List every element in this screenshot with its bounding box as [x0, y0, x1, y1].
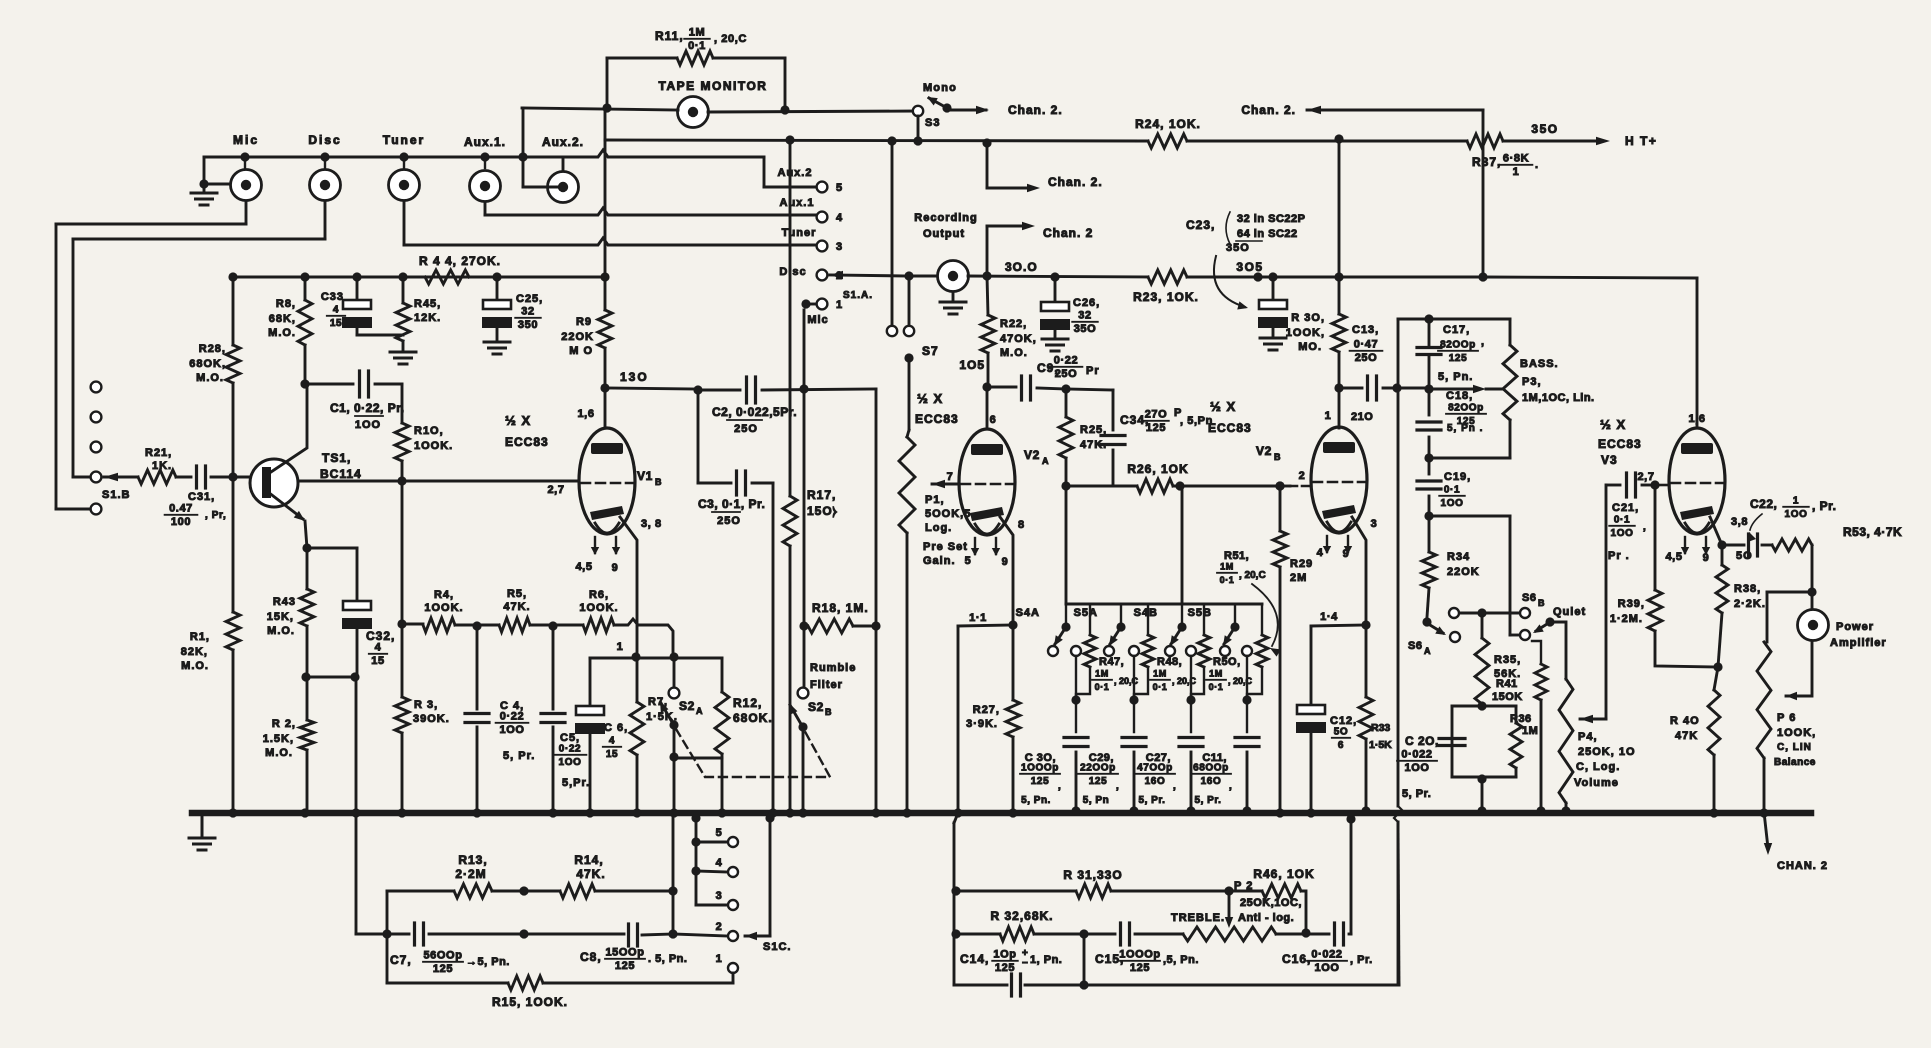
svg-text:TAPE MONITOR: TAPE MONITOR — [659, 79, 768, 93]
svg-text:1M: 1M — [1153, 669, 1167, 679]
svg-text:R13,: R13, — [458, 853, 487, 867]
svg-text:1OO: 1OO — [499, 724, 524, 736]
svg-text:V2: V2 — [1256, 444, 1272, 458]
svg-text:S5A: S5A — [1074, 607, 1098, 619]
svg-text:Log.: Log. — [925, 522, 952, 534]
svg-text:Recording: Recording — [914, 212, 977, 224]
svg-text:C13,: C13, — [1352, 324, 1379, 336]
svg-text:R37,: R37, — [1472, 155, 1501, 169]
svg-text:4,5: 4,5 — [575, 561, 592, 573]
svg-text:, 20,C: , 20,C — [1239, 570, 1266, 581]
svg-text:9: 9 — [1002, 556, 1009, 568]
svg-text:Aux.2: Aux.2 — [778, 167, 813, 179]
svg-text:1,6: 1,6 — [1688, 413, 1705, 425]
svg-text:12K.: 12K. — [414, 312, 441, 324]
svg-text:1: 1 — [836, 299, 843, 311]
svg-text:125: 125 — [1089, 776, 1108, 787]
svg-text:Tuner: Tuner — [782, 227, 817, 239]
svg-text:0·1: 0·1 — [1220, 575, 1235, 585]
svg-text:S1C.: S1C. — [763, 941, 791, 953]
svg-text:47K.: 47K. — [503, 601, 530, 613]
svg-text:R51,: R51, — [1224, 550, 1249, 562]
svg-text:R12,: R12, — [733, 696, 762, 710]
svg-text:1: 1 — [1325, 410, 1332, 422]
svg-text:TREBLE.: TREBLE. — [1171, 912, 1225, 924]
svg-text:2: 2 — [1299, 470, 1306, 482]
svg-text:, Pr,: , Pr, — [205, 510, 226, 521]
svg-text:R36: R36 — [1510, 713, 1532, 725]
svg-text:. 5, Pn.: . 5, Pn. — [648, 953, 687, 965]
svg-text:R22,: R22, — [1000, 318, 1027, 330]
svg-text:R18, 1M.: R18, 1M. — [812, 601, 869, 615]
svg-text:R1O,: R1O, — [414, 425, 444, 437]
svg-text:25O: 25O — [1055, 368, 1078, 380]
svg-text:25OK, 1O: 25OK, 1O — [1578, 746, 1636, 758]
svg-text:6: 6 — [990, 414, 997, 426]
svg-text:1OO: 1OO — [355, 419, 381, 431]
svg-text:5, Pn .: 5, Pn . — [1447, 423, 1483, 434]
svg-text:Balance: Balance — [1774, 757, 1816, 768]
svg-text:Chan. 2: Chan. 2 — [1043, 226, 1093, 240]
svg-text:C33: C33 — [321, 291, 344, 303]
svg-text:M.O.: M.O. — [265, 747, 293, 759]
svg-text:B: B — [1274, 452, 1281, 462]
svg-text:C21,: C21, — [1612, 502, 1639, 514]
svg-text:1M: 1M — [1095, 669, 1109, 679]
svg-text:→5, Pn.: →5, Pn. — [466, 956, 510, 968]
svg-text:S1.A.: S1.A. — [843, 290, 873, 301]
svg-text:R5,: R5, — [507, 588, 527, 600]
svg-text:1OO: 1OO — [1314, 962, 1339, 974]
svg-text:,: , — [1481, 336, 1485, 348]
svg-text:3: 3 — [1371, 518, 1378, 530]
svg-text:R21,: R21, — [145, 447, 172, 459]
svg-text:R 4O: R 4O — [1670, 715, 1700, 727]
svg-text:M.O.: M.O. — [1000, 347, 1028, 359]
svg-text:1K.: 1K. — [152, 460, 172, 472]
svg-text:Filter: Filter — [810, 679, 843, 691]
svg-text:3: 3 — [716, 890, 723, 902]
svg-text:2·2M: 2·2M — [455, 867, 486, 881]
svg-text:47K.: 47K. — [576, 867, 605, 881]
svg-text:Chan. 2.: Chan. 2. — [1241, 103, 1296, 117]
svg-text:9: 9 — [1343, 548, 1350, 560]
svg-text:S1.B: S1.B — [102, 489, 130, 501]
svg-text:Chan. 2.: Chan. 2. — [1048, 175, 1103, 189]
svg-text:0·22: 0·22 — [500, 711, 524, 723]
svg-text:13O: 13O — [620, 370, 649, 384]
svg-text:C22,: C22, — [1750, 497, 1777, 511]
svg-text:25OK,1OC,: 25OK,1OC, — [1240, 897, 1302, 909]
svg-text:TS1,: TS1, — [322, 451, 351, 465]
svg-text:ECC83: ECC83 — [1598, 437, 1642, 451]
svg-text:32: 32 — [521, 306, 534, 318]
svg-text:0·22: 0·22 — [559, 744, 581, 755]
svg-text:68OK.: 68OK. — [733, 711, 773, 725]
svg-text:Quiet: Quiet — [1553, 606, 1586, 618]
svg-text:2·2K.: 2·2K. — [1734, 598, 1766, 610]
svg-text:½ X: ½ X — [505, 413, 531, 428]
svg-text:R23, 1OK.: R23, 1OK. — [1133, 290, 1199, 304]
svg-text:−: − — [1022, 958, 1028, 969]
svg-text:5, Pr.: 5, Pr. — [503, 750, 535, 762]
svg-text:P4,: P4, — [1578, 731, 1598, 743]
svg-text:C23,: C23, — [1186, 218, 1215, 232]
svg-text:5, Pn: 5, Pn — [1083, 795, 1109, 806]
svg-text:C, LIN: C, LIN — [1777, 742, 1812, 753]
svg-text:125: 125 — [615, 960, 635, 972]
svg-text:R33: R33 — [1371, 722, 1390, 734]
svg-text:MO.: MO. — [1298, 341, 1322, 353]
svg-text:V1: V1 — [637, 469, 653, 483]
svg-text:47OK,: 47OK, — [1000, 333, 1037, 345]
svg-text:47OOp: 47OOp — [1137, 763, 1173, 774]
svg-text:1: 1 — [1793, 496, 1799, 507]
svg-text:1Op: 1Op — [993, 949, 1016, 961]
svg-text:1: 1 — [617, 641, 624, 653]
svg-text:C12,: C12, — [1330, 715, 1357, 727]
svg-text:S2: S2 — [679, 699, 695, 713]
svg-text:V2: V2 — [1024, 448, 1040, 462]
svg-text:0·1: 0·1 — [1209, 682, 1224, 692]
svg-text:2: 2 — [716, 921, 723, 933]
svg-text:1O5: 1O5 — [959, 358, 985, 372]
svg-text:C2, 0·022,5Pr.: C2, 0·022,5Pr. — [712, 405, 797, 419]
svg-text:R5O,: R5O, — [1213, 656, 1241, 668]
svg-text:32 in SC22P: 32 in SC22P — [1237, 213, 1305, 225]
svg-text:5: 5 — [836, 182, 843, 194]
svg-text:P1,: P1, — [925, 494, 945, 506]
svg-text:68K,: 68K, — [269, 313, 296, 325]
svg-text:C16,: C16, — [1282, 952, 1311, 966]
svg-text:Aux.1.: Aux.1. — [464, 135, 506, 149]
svg-text:5, Pr.: 5, Pr. — [1402, 788, 1431, 800]
svg-text:M.O.: M.O. — [268, 327, 296, 339]
svg-text:4: 4 — [375, 642, 382, 654]
svg-text:3O5: 3O5 — [1236, 260, 1263, 274]
svg-text:1OOK.: 1OOK. — [424, 602, 463, 614]
svg-text:35O: 35O — [1531, 122, 1558, 136]
svg-text:, Pr.: , Pr. — [1350, 954, 1373, 966]
svg-text:1OO: 1OO — [1611, 528, 1634, 539]
svg-text:1OOK,: 1OOK, — [1286, 327, 1325, 339]
svg-text:2M: 2M — [1290, 572, 1307, 584]
svg-text:R26, 1OK: R26, 1OK — [1127, 462, 1188, 476]
svg-text:1,6: 1,6 — [577, 408, 594, 420]
svg-text:Disc: Disc — [308, 133, 341, 147]
svg-text:9: 9 — [1703, 552, 1710, 564]
svg-text:C8,: C8, — [580, 950, 602, 964]
svg-text:Power: Power — [1836, 621, 1874, 633]
svg-text:M.O.: M.O. — [196, 372, 224, 384]
svg-text:A: A — [696, 706, 703, 716]
svg-text:16O: 16O — [1145, 776, 1166, 787]
svg-text:R48,: R48, — [1157, 656, 1182, 668]
svg-text:125: 125 — [1130, 962, 1150, 974]
svg-text:C25,: C25, — [516, 293, 543, 305]
svg-text:5: 5 — [965, 555, 972, 567]
svg-text:5, Pr.: 5, Pr. — [1195, 795, 1222, 806]
svg-text:0.47: 0.47 — [169, 503, 193, 515]
svg-text:R 2,: R 2, — [272, 718, 296, 730]
svg-text:R9: R9 — [576, 316, 592, 328]
svg-text:22OK: 22OK — [561, 331, 594, 343]
svg-text:Output: Output — [923, 228, 965, 240]
svg-text:15K,: 15K, — [267, 611, 294, 623]
svg-text:Aux.2.: Aux.2. — [542, 135, 584, 149]
svg-text:2,7: 2,7 — [547, 484, 564, 496]
svg-text:C26,: C26, — [1073, 297, 1100, 309]
svg-text:R47,: R47, — [1099, 656, 1124, 668]
svg-text:, Pr.: , Pr. — [1812, 499, 1837, 513]
svg-text:68OOp: 68OOp — [1193, 763, 1229, 774]
svg-text:S3: S3 — [925, 117, 940, 129]
svg-text:4: 4 — [1317, 547, 1324, 559]
svg-text:0·1: 0·1 — [1153, 682, 1168, 692]
svg-text:½ X: ½ X — [917, 391, 943, 406]
svg-text:C 6,: C 6, — [604, 722, 628, 734]
svg-text:125: 125 — [995, 962, 1015, 974]
svg-text:1OO: 1OO — [1404, 762, 1429, 774]
svg-text:100: 100 — [171, 516, 191, 528]
svg-text:,: , — [1173, 781, 1176, 792]
svg-text:S2: S2 — [808, 700, 824, 714]
svg-text:B: B — [1538, 598, 1545, 608]
svg-text:Anti - log.: Anti - log. — [1238, 912, 1294, 924]
svg-text:R1,: R1, — [190, 631, 210, 643]
svg-text:BC114: BC114 — [320, 467, 362, 481]
svg-text:½ X: ½ X — [1210, 399, 1236, 414]
svg-text:C17,: C17, — [1443, 324, 1470, 336]
svg-text:125: 125 — [1449, 353, 1468, 364]
svg-text:9: 9 — [612, 562, 619, 574]
svg-text:1: 1 — [716, 953, 723, 965]
svg-text:82OOp: 82OOp — [1448, 403, 1484, 414]
svg-text:4: 4 — [609, 736, 615, 747]
svg-text:R46, 1OK: R46, 1OK — [1253, 867, 1314, 881]
svg-text:R 3,: R 3, — [414, 699, 438, 711]
svg-text:15O⧽: 15O⧽ — [807, 504, 838, 518]
svg-text:0·47: 0·47 — [1354, 339, 1378, 351]
svg-text:C18,: C18, — [1446, 390, 1473, 402]
svg-text:V3: V3 — [1601, 453, 1618, 467]
svg-text:½ X: ½ X — [1600, 417, 1626, 432]
svg-text:39OK.: 39OK. — [413, 713, 450, 725]
svg-text:R39,: R39, — [1618, 598, 1645, 610]
svg-text:R34: R34 — [1447, 551, 1470, 563]
svg-text:R24, 1OK.: R24, 1OK. — [1135, 117, 1201, 131]
svg-text:6: 6 — [1338, 740, 1344, 751]
svg-text:R27,: R27, — [973, 704, 1000, 716]
svg-text:1M: 1M — [1522, 725, 1538, 737]
svg-text:Gain.: Gain. — [923, 555, 956, 567]
svg-text:ECC83: ECC83 — [915, 412, 959, 426]
svg-text:0·1: 0·1 — [1444, 485, 1460, 496]
svg-text:32: 32 — [1078, 310, 1091, 322]
svg-text:1M,1OC, Lin.: 1M,1OC, Lin. — [1522, 392, 1595, 404]
svg-text:BASS.: BASS. — [1520, 358, 1559, 370]
svg-text:M.O.: M.O. — [181, 660, 209, 672]
svg-text:5: 5 — [716, 827, 723, 839]
svg-text:R17,: R17, — [807, 488, 836, 502]
svg-text:1OO: 1OO — [1785, 509, 1808, 520]
svg-text:R 31,33O: R 31,33O — [1063, 868, 1122, 882]
svg-text:5O: 5O — [1736, 550, 1753, 562]
svg-text:Tuner: Tuner — [383, 133, 425, 147]
svg-text:S7: S7 — [922, 344, 939, 358]
svg-text:125: 125 — [433, 963, 453, 975]
svg-text:22OOp: 22OOp — [1080, 763, 1116, 774]
svg-text:S4B: S4B — [1134, 607, 1158, 619]
svg-text:B: B — [825, 707, 832, 717]
svg-text:0·022: 0·022 — [1311, 949, 1342, 961]
svg-text:R28,: R28, — [199, 343, 226, 355]
svg-text:64 in SC22: 64 in SC22 — [1237, 228, 1298, 240]
svg-text:ECC83: ECC83 — [1208, 421, 1252, 435]
svg-text:1OOK,: 1OOK, — [1777, 727, 1816, 739]
svg-text:A: A — [1042, 456, 1049, 466]
svg-text:ECC83: ECC83 — [505, 435, 549, 449]
svg-text:R6,: R6, — [589, 589, 609, 601]
svg-text:R 4 4, 27OK.: R 4 4, 27OK. — [419, 254, 501, 268]
svg-text:25O: 25O — [717, 515, 741, 527]
svg-text:82OOp: 82OOp — [1440, 340, 1476, 351]
svg-text:M.O.: M.O. — [267, 625, 295, 637]
svg-text:1OOOp: 1OOOp — [1021, 763, 1059, 774]
svg-text:R45,: R45, — [414, 298, 441, 310]
svg-text:27O: 27O — [1145, 409, 1168, 421]
svg-text:R41: R41 — [1496, 678, 1518, 690]
svg-text:M O: M O — [569, 345, 593, 357]
svg-text:S6: S6 — [1408, 640, 1423, 652]
svg-text:5OOK,5: 5OOK,5 — [925, 508, 971, 520]
svg-text:5,Pr.: 5,Pr. — [562, 777, 590, 789]
svg-text:R4,: R4, — [434, 589, 454, 601]
svg-text:R8,: R8, — [276, 298, 296, 310]
svg-text:,5, Pn.: ,5, Pn. — [1163, 954, 1199, 966]
svg-text:4: 4 — [716, 857, 723, 869]
svg-text:16O: 16O — [1201, 776, 1222, 787]
svg-text:68OK,: 68OK, — [189, 358, 226, 370]
svg-text:6·8K: 6·8K — [1503, 153, 1529, 165]
svg-text:Volume: Volume — [1574, 777, 1619, 789]
svg-text:3,8: 3,8 — [1731, 516, 1748, 528]
svg-text:4: 4 — [836, 212, 843, 224]
svg-text:21O: 21O — [1351, 411, 1373, 423]
svg-text:,: , — [1058, 781, 1061, 792]
svg-text:R11,: R11, — [655, 29, 684, 43]
svg-text:0·022: 0·022 — [1401, 749, 1432, 761]
svg-text:Mic: Mic — [807, 314, 828, 326]
svg-text:3O.O: 3O.O — [1005, 260, 1038, 274]
svg-text:1: 1 — [1513, 166, 1520, 178]
svg-text:5, Pr.: 5, Pr. — [1139, 795, 1166, 806]
svg-text:1M: 1M — [1220, 562, 1234, 572]
svg-text:0·1: 0·1 — [1614, 515, 1630, 526]
svg-text:P 6: P 6 — [1777, 712, 1796, 724]
svg-text:1OO: 1OO — [1441, 498, 1464, 509]
svg-text:Mono: Mono — [923, 82, 957, 94]
svg-text:1OOK.: 1OOK. — [579, 602, 618, 614]
svg-text:S6: S6 — [1522, 592, 1537, 604]
svg-text:1OOOp: 1OOOp — [1119, 949, 1161, 961]
svg-text:,: , — [1643, 522, 1646, 533]
svg-text:0·1: 0·1 — [1095, 682, 1110, 692]
svg-text:47K: 47K — [1675, 730, 1698, 742]
svg-text:3, 8: 3, 8 — [641, 518, 662, 530]
svg-text:35O: 35O — [1074, 323, 1097, 335]
svg-text:C14,: C14, — [960, 952, 989, 966]
svg-text:Chan. 2.: Chan. 2. — [1008, 103, 1063, 117]
svg-text:R38,: R38, — [1734, 583, 1761, 595]
svg-text:C, Log.: C, Log. — [1576, 761, 1620, 773]
svg-text:1OOK.: 1OOK. — [414, 440, 453, 452]
svg-text:Mic: Mic — [233, 133, 259, 147]
svg-text:1.5K,: 1.5K, — [263, 733, 294, 745]
svg-text:5, Pn.: 5, Pn. — [1438, 371, 1473, 383]
svg-text:,: , — [1116, 781, 1119, 792]
svg-text:R15, 1OOK.: R15, 1OOK. — [492, 995, 568, 1009]
svg-text:Amplifier: Amplifier — [1830, 637, 1887, 649]
svg-text:, 20,C: , 20,C — [1228, 676, 1253, 686]
svg-text:5O: 5O — [1334, 727, 1349, 738]
svg-text:5, Pn.: 5, Pn. — [1021, 795, 1051, 806]
svg-text:Rumble: Rumble — [810, 662, 856, 674]
svg-text:C3, 0·1, Pr.: C3, 0·1, Pr. — [698, 497, 765, 511]
svg-text:C31,: C31, — [188, 491, 215, 503]
svg-text:15OOp: 15OOp — [605, 947, 644, 959]
svg-text:1·2M.: 1·2M. — [1610, 613, 1643, 625]
svg-text:1, Pn.: 1, Pn. — [1030, 954, 1062, 966]
svg-text:22OK: 22OK — [1447, 566, 1480, 578]
svg-text:25O: 25O — [1355, 352, 1378, 364]
svg-text:2,7: 2,7 — [1637, 471, 1654, 483]
svg-text:Aux.1: Aux.1 — [780, 197, 815, 209]
svg-text:25O: 25O — [734, 423, 758, 435]
svg-text:82K,: 82K, — [181, 646, 208, 658]
svg-text:R14,: R14, — [574, 853, 603, 867]
svg-text:0·1: 0·1 — [688, 40, 706, 52]
svg-text:A: A — [1424, 646, 1431, 656]
svg-text:, 20,C: , 20,C — [714, 33, 747, 45]
svg-text:1·1: 1·1 — [969, 612, 987, 624]
svg-text:15OK: 15OK — [1492, 691, 1523, 703]
svg-text:1·5K: 1·5K — [1369, 739, 1392, 751]
svg-text:3·9K.: 3·9K. — [966, 718, 998, 730]
svg-text:Pr .: Pr . — [1608, 550, 1630, 562]
svg-text:S4A: S4A — [1016, 607, 1040, 619]
svg-text:1M: 1M — [689, 27, 705, 39]
svg-text:4: 4 — [333, 305, 339, 316]
svg-text:7: 7 — [947, 471, 954, 483]
svg-text:R43: R43 — [273, 596, 296, 608]
svg-text:35O: 35O — [1226, 242, 1250, 254]
svg-text:CHAN. 2: CHAN. 2 — [1777, 860, 1828, 872]
svg-text:15: 15 — [371, 655, 384, 667]
svg-text:15: 15 — [606, 749, 618, 760]
svg-text:125: 125 — [1031, 776, 1050, 787]
svg-text:1OO: 1OO — [559, 757, 582, 768]
svg-text:8: 8 — [1018, 519, 1025, 531]
svg-text:R53, 4·7K: R53, 4·7K — [1843, 525, 1902, 539]
svg-text:C1, 0·22, Pr.: C1, 0·22, Pr. — [330, 401, 405, 415]
svg-text:1M: 1M — [1209, 669, 1223, 679]
svg-text:125: 125 — [1146, 422, 1166, 434]
svg-text:R 3O,: R 3O, — [1291, 312, 1325, 324]
svg-text:1·4: 1·4 — [1320, 611, 1338, 623]
svg-text:, 20,C: , 20,C — [1172, 676, 1197, 686]
svg-text:C19,: C19, — [1444, 471, 1471, 483]
